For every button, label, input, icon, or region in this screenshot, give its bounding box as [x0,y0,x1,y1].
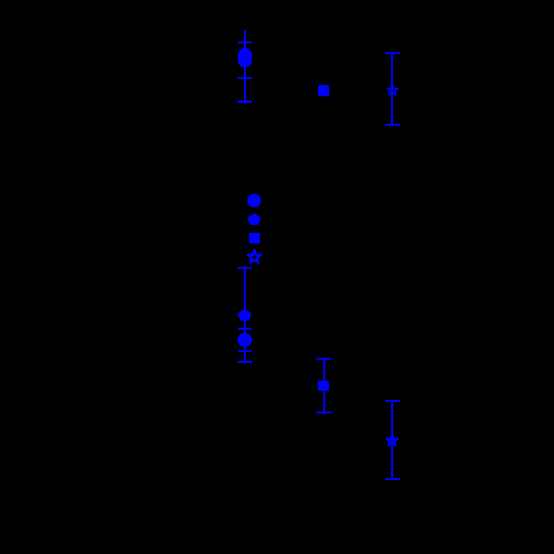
errorbar cluster B cap y=328.4 [238,328,252,330]
square marker series3 point2 [318,381,329,391]
circle marker series1 point2 [238,333,252,347]
legend square marker [249,233,260,244]
errorbar star-bottom top cap y=401.0 [385,400,400,402]
errorbar star-bottom bottom cap y=479.0 [385,478,400,480]
errorbar star-top bottom cap y=124.8 [385,124,400,126]
pentagon marker series2 point1 (renders as round blob) [238,54,252,68]
errorbar cluster A vertical line [244,30,246,101]
errorbar square-bottom bottom cap y=412.5 [316,412,331,414]
pentagon marker series2 point2 [238,309,252,321]
square marker series3 point1 [318,85,329,96]
errorbar square-bottom top cap y=358.8 [316,358,331,360]
legend open star marker [248,250,261,263]
errorbar cluster B vertical line [244,268,246,362]
errorbar cluster A cap y=42.4 [238,41,252,43]
open star marker series4 point2 [386,435,397,446]
errorbar cluster A bottom cap y=101.6 [238,100,253,102]
errorbar star-top top cap y=53.2 [385,52,400,54]
errorbar cluster B cap y=350.5 [238,350,252,352]
legend pentagon marker [248,213,261,225]
open star marker series4 point1 [387,84,398,95]
errorbar star-bottom vertical line [391,401,393,479]
legend circle marker [247,194,261,208]
circle marker series1 point1 [238,48,252,62]
errorbar cluster B bottom cap y=361.7 [238,361,252,363]
errorbar cluster B top cap y=268.2 [238,267,252,269]
errorbar square-bottom vertical line [323,359,325,413]
errorbar cluster A cap y=78.0 [238,77,252,79]
errorbar star-top vertical line [391,53,393,125]
